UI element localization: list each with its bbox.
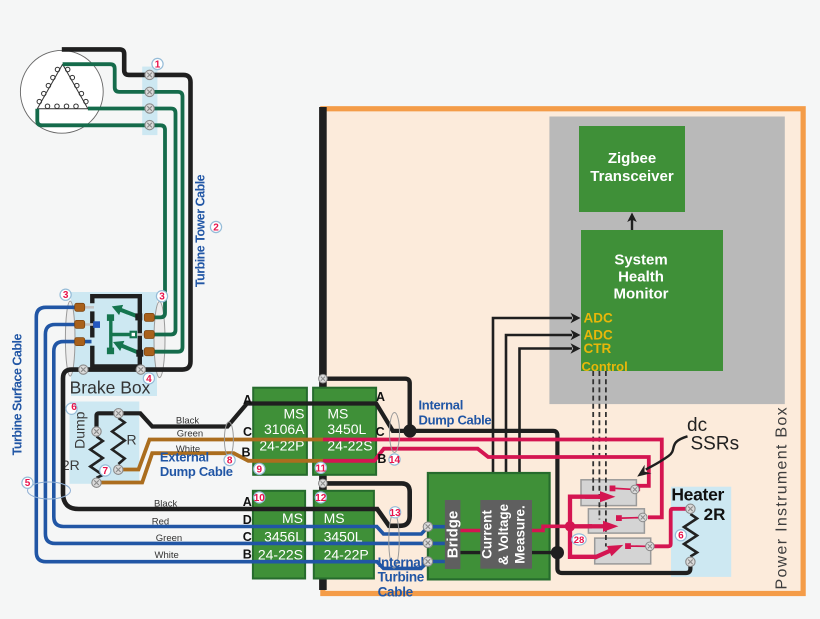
svg-text:Dump Cable: Dump Cable bbox=[419, 412, 492, 427]
brake pin L1 bbox=[75, 303, 85, 311]
svg-text:6: 6 bbox=[71, 402, 77, 413]
SSR1 output lead bbox=[615, 487, 631, 490]
svg-text:Heater: Heater bbox=[671, 484, 724, 504]
resistor R dump bbox=[112, 418, 125, 464]
resistor 2R dump bbox=[90, 437, 103, 478]
label internal dump cable bbox=[419, 398, 492, 428]
svg-text:8: 8 bbox=[227, 456, 233, 467]
brake blue square node bbox=[93, 321, 100, 328]
callout 10 bbox=[254, 492, 266, 504]
connector MS3456L 24-22S bbox=[253, 491, 305, 579]
SSR3 output node bbox=[625, 543, 631, 549]
junction crimson dot 28 bbox=[565, 521, 575, 531]
svg-text:Measure.: Measure. bbox=[513, 505, 528, 564]
svg-text:White: White bbox=[176, 444, 200, 455]
SSR3 terminal bbox=[646, 542, 655, 551]
svg-text:9: 9 bbox=[257, 464, 263, 475]
terminal strip X3 bbox=[145, 104, 154, 113]
svg-text:11: 11 bbox=[316, 463, 327, 474]
cable ellipse 5 bbox=[28, 482, 71, 499]
dashed control wire to SSR1 bbox=[592, 371, 594, 493]
terminal strip X4 bbox=[145, 120, 154, 129]
numbered callouts bbox=[22, 58, 687, 546]
svg-text:Turbine Tower Cable: Turbine Tower Cable bbox=[194, 174, 208, 287]
callout 1 bbox=[152, 58, 163, 70]
svg-text:Zigbee: Zigbee bbox=[608, 150, 656, 167]
wire blue brake pin L1 to white lower connector bbox=[36, 307, 428, 568]
svg-text:13: 13 bbox=[390, 508, 402, 519]
callout 11 bbox=[315, 462, 326, 474]
svg-text:3: 3 bbox=[159, 292, 165, 303]
callout 14 bbox=[389, 454, 401, 466]
svg-text:B: B bbox=[241, 446, 250, 460]
svg-text:A: A bbox=[243, 393, 252, 407]
SSR2 input arrow bbox=[588, 521, 618, 532]
svg-text:Dump Cable: Dump Cable bbox=[160, 464, 233, 479]
wire brown green-lead dump to connector C bbox=[118, 440, 323, 470]
svg-text:10: 10 bbox=[254, 493, 266, 504]
wire black generator to tower to brake bottom to lower connector A bbox=[62, 49, 410, 525]
dashed control wire to SSR2 bbox=[598, 371, 600, 520]
svg-text:B: B bbox=[243, 548, 252, 562]
brake pin R2 bbox=[144, 331, 154, 339]
wire crimson SSR3 to heater bbox=[650, 509, 691, 547]
callout 5 bbox=[22, 477, 33, 489]
SSR1 box bbox=[581, 480, 636, 506]
svg-text:B: B bbox=[377, 452, 386, 466]
current voltage measure box bbox=[480, 500, 533, 569]
dump terminal 2R top bbox=[92, 427, 101, 436]
wire thick black shield vertical through connectors bbox=[319, 107, 327, 590]
svg-text:Transceiver: Transceiver bbox=[590, 168, 674, 185]
SSR1 input arrow bbox=[585, 491, 615, 502]
svg-text:C: C bbox=[243, 425, 252, 439]
svg-text:Control: Control bbox=[582, 359, 628, 374]
brake pin R3 bbox=[144, 348, 154, 356]
callout 12 bbox=[315, 492, 327, 504]
SSR2 output lead bbox=[622, 517, 639, 520]
svg-text:Dump: Dump bbox=[72, 411, 88, 449]
shield terminal mid bbox=[319, 479, 328, 488]
callout 7 bbox=[100, 465, 111, 477]
svg-text:Monitor: Monitor bbox=[614, 286, 669, 303]
svg-text:White: White bbox=[155, 550, 179, 561]
brake pin L2 bbox=[75, 320, 85, 328]
connector MS3450L 24-22S bbox=[313, 388, 376, 475]
brake switch arrow 2 bbox=[111, 337, 142, 358]
shield terminal top bbox=[319, 374, 328, 383]
callout 3 right bbox=[156, 291, 167, 303]
brake pin R1 bbox=[144, 313, 154, 321]
wire crimson junction to SSR1 input bbox=[570, 497, 601, 527]
svg-text:A: A bbox=[376, 390, 385, 404]
dump terminal 2R bottom bbox=[92, 478, 101, 487]
svg-text:SSRs: SSRs bbox=[691, 434, 740, 455]
brake pin L3 bbox=[75, 338, 85, 346]
svg-text:4: 4 bbox=[146, 374, 152, 385]
callout 4 bbox=[143, 373, 154, 385]
SSR3 output lead bbox=[631, 545, 647, 547]
wire black shield terminal to internal dump junction bbox=[323, 379, 410, 431]
svg-text:28: 28 bbox=[574, 535, 585, 546]
svg-text:Cable: Cable bbox=[378, 585, 414, 600]
svg-text:& Voltage: & Voltage bbox=[496, 503, 511, 565]
brake connector oval left bbox=[65, 301, 75, 376]
svg-text:System: System bbox=[614, 252, 667, 269]
svg-text:5: 5 bbox=[25, 478, 31, 489]
terminal strip X1 bbox=[145, 70, 154, 79]
svg-text:Black: Black bbox=[154, 499, 177, 510]
brake switch arrow 1 bbox=[110, 301, 141, 322]
svg-text:12: 12 bbox=[315, 493, 327, 504]
label external dump cable bbox=[160, 450, 233, 479]
junction black dot cv output bbox=[551, 546, 564, 559]
brake connector oval right bbox=[154, 302, 165, 378]
connector MS3450L 24-22P bbox=[314, 491, 374, 579]
brake black node R3 bbox=[136, 350, 143, 357]
callout 13 bbox=[390, 507, 402, 519]
dump terminal R bottom bbox=[114, 465, 123, 474]
svg-text:Turbine: Turbine bbox=[378, 570, 425, 585]
svg-text:A: A bbox=[243, 495, 252, 509]
wire brown white-lead dump to connector B bbox=[97, 453, 324, 482]
X terminals bbox=[79, 70, 696, 566]
svg-text:Red: Red bbox=[152, 516, 169, 527]
svg-text:C: C bbox=[376, 425, 385, 439]
svg-text:Internal: Internal bbox=[419, 398, 464, 413]
resistor 2R heater bbox=[684, 514, 697, 557]
bridge label box bbox=[445, 500, 462, 569]
wire blue brake pin L2 to green lower connector bbox=[45, 325, 428, 544]
wire crimson junction to SSR3 input bbox=[570, 526, 597, 557]
SSR2 output node bbox=[616, 515, 622, 521]
callout 9 bbox=[254, 463, 265, 475]
controller gray box bbox=[549, 117, 784, 405]
wire green generator left to terminal 4 to brake pin R1 bbox=[37, 109, 165, 318]
callout 28 bbox=[572, 534, 586, 546]
brake gray stub L2 bbox=[84, 323, 93, 326]
wire CTR to current-voltage measure bbox=[520, 343, 581, 500]
heater terminal bottom bbox=[686, 557, 695, 566]
SSR3 box bbox=[595, 538, 651, 564]
wire black bridge to cv to junction bbox=[460, 551, 557, 554]
SSR2 terminal bbox=[639, 513, 648, 522]
wire ADC2 to current-voltage measure bbox=[506, 330, 581, 500]
svg-text:MS: MS bbox=[327, 406, 348, 422]
wire blue brake pin L3 to red lower connector bbox=[54, 342, 428, 534]
wire ADC1 to current-voltage measure bbox=[493, 313, 581, 500]
dashed control wire to SSR3 bbox=[605, 371, 607, 547]
annotation arrow to SSRs bbox=[637, 436, 687, 476]
bridge terminal 3 bbox=[423, 557, 432, 566]
bridge terminal 1 bbox=[423, 522, 432, 531]
callout 8 bbox=[224, 454, 235, 466]
svg-text:Green: Green bbox=[156, 533, 182, 544]
svg-text:6: 6 bbox=[678, 531, 684, 542]
bridge container green box bbox=[428, 473, 550, 579]
heater box bbox=[671, 484, 731, 577]
brake relay coil bracket bbox=[107, 314, 137, 354]
svg-text:Current: Current bbox=[480, 510, 495, 559]
SSR2 box bbox=[588, 509, 644, 533]
svg-text:3: 3 bbox=[63, 290, 69, 301]
svg-text:Brake Box: Brake Box bbox=[70, 378, 151, 398]
SSR1 terminal bbox=[631, 485, 640, 494]
svg-text:Turbine Surface Cable: Turbine Surface Cable bbox=[11, 334, 25, 456]
svg-text:C: C bbox=[243, 530, 252, 544]
cable oval 14 internal dump bbox=[390, 413, 400, 453]
brake box body bbox=[70, 292, 157, 398]
junction black dot internal dump bbox=[403, 424, 416, 437]
arrow from SHM to zigbee bbox=[627, 213, 637, 231]
dump terminal R top bbox=[114, 409, 123, 418]
label dc SSRs bbox=[687, 415, 739, 455]
bridge terminal 2 bbox=[423, 538, 432, 547]
wire blue stub bridge 3 bbox=[428, 560, 445, 564]
callout 2 bbox=[210, 221, 221, 233]
wire crimson C connector to SSR1 bbox=[323, 440, 662, 518]
svg-text:MS: MS bbox=[284, 406, 305, 422]
brake gray stub R2 bbox=[137, 333, 144, 336]
system health monitor U2 bbox=[581, 230, 723, 371]
svg-text:Bridge: Bridge bbox=[445, 511, 462, 559]
connector MS3106A 24-22P bbox=[253, 388, 307, 475]
heater terminal top bbox=[686, 504, 695, 513]
wire crimson cv to junction 28 bbox=[532, 526, 570, 530]
wire crimson bridge to cv bbox=[460, 529, 480, 533]
brake bottom terminal left bbox=[79, 365, 88, 374]
wire blue stub bridge 2 bbox=[428, 542, 445, 546]
brake gray stub L1 bbox=[84, 306, 94, 309]
power instrument box bbox=[323, 109, 803, 594]
wire crimson B connector to SSR2 bbox=[323, 449, 649, 490]
SSR3 input arrow bbox=[592, 540, 625, 563]
svg-text:ADC: ADC bbox=[584, 311, 613, 326]
svg-text:2R: 2R bbox=[704, 505, 726, 524]
brake black node R1 bbox=[135, 313, 142, 320]
dump resistor box bbox=[62, 402, 139, 484]
brake box frame bbox=[92, 296, 140, 366]
callout 6 bbox=[66, 402, 77, 414]
svg-text:CTR: CTR bbox=[584, 341, 612, 356]
svg-text:1: 1 bbox=[155, 60, 161, 71]
wire crimson junction to SSR2 input bbox=[570, 524, 592, 528]
SSR1 output node bbox=[610, 486, 616, 492]
svg-text:3106A: 3106A bbox=[264, 421, 305, 437]
svg-text:7: 7 bbox=[103, 466, 109, 477]
svg-text:Health: Health bbox=[618, 269, 664, 286]
cable oval 8 external dump bbox=[224, 422, 233, 457]
cable oval 13 internal turbine bbox=[389, 513, 399, 568]
svg-text:Power Instrument Box: Power Instrument Box bbox=[774, 406, 791, 589]
wire blue stub bridge 1 bbox=[428, 525, 445, 529]
svg-text:MS: MS bbox=[324, 510, 345, 526]
svg-text:MS: MS bbox=[282, 510, 303, 526]
svg-text:14: 14 bbox=[389, 455, 401, 466]
svg-text:Internal: Internal bbox=[378, 555, 424, 570]
svg-text:Black: Black bbox=[176, 416, 199, 427]
svg-text:R: R bbox=[126, 432, 136, 448]
svg-text:2: 2 bbox=[213, 223, 219, 234]
zigbee transceiver U1 bbox=[579, 126, 685, 212]
wire green generator right to terminal 3 to brake pin R2 bbox=[88, 109, 176, 335]
generator G1 bbox=[20, 50, 103, 133]
brake bottom terminal right bbox=[136, 365, 145, 374]
svg-text:Green: Green bbox=[177, 429, 203, 440]
terminal strip 1 bbox=[142, 67, 157, 136]
svg-text:3450L: 3450L bbox=[327, 421, 366, 437]
callout 3 left bbox=[60, 289, 71, 301]
callout 6 heater bbox=[675, 530, 686, 542]
label internal turbine cable bbox=[378, 555, 425, 600]
svg-text:D: D bbox=[243, 513, 252, 527]
terminal strip X2 bbox=[145, 87, 154, 96]
wire green generator apex to terminal 2 to brake pin R3 bbox=[63, 64, 183, 352]
wire black dump to internal dump cable to heater bbox=[97, 404, 691, 574]
